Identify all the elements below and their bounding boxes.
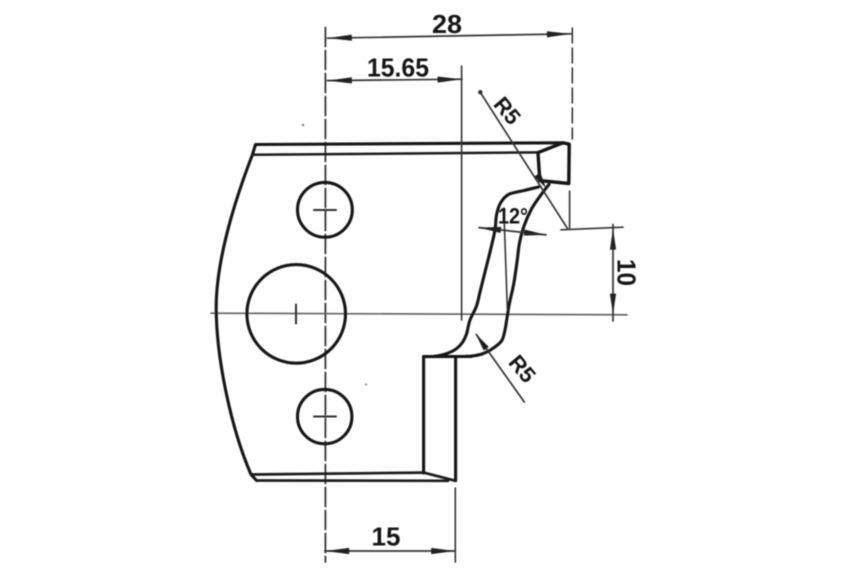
back ogee curve bbox=[434, 187, 539, 356]
hole H1 tick bbox=[314, 209, 336, 211]
step back vertical bbox=[454, 358, 457, 481]
svg-text:15: 15 bbox=[372, 522, 401, 552]
hole H2 big bbox=[247, 265, 346, 364]
dim 10 top ext line bbox=[561, 227, 623, 230]
svg-text:R5: R5 bbox=[489, 92, 526, 130]
centerline horizontal (big hole axis / bottom ext of 10) bbox=[211, 313, 627, 315]
bottom face lower line bbox=[257, 479, 449, 482]
scan speck bbox=[302, 124, 305, 127]
leader R5 lower bbox=[476, 335, 524, 403]
svg-text:10: 10 bbox=[612, 259, 642, 286]
front ogee curve bbox=[466, 185, 549, 357]
dim 28 right ext line bbox=[571, 28, 573, 139]
dim 15 line bbox=[325, 550, 456, 552]
outline left arc + top corner bbox=[216, 143, 563, 481]
angle 12 dim line bbox=[479, 228, 546, 235]
scan speck bbox=[365, 383, 367, 385]
leader R5 upper bbox=[480, 91, 568, 228]
svg-text:28: 28 bbox=[432, 11, 462, 39]
step front vertical bbox=[422, 357, 425, 473]
dim 15 right ext line bbox=[454, 488, 456, 562]
dim 10 line bbox=[612, 225, 614, 322]
bottom face top line bbox=[251, 473, 424, 475]
hole H2 tick bbox=[295, 305, 297, 324]
top face lower line bbox=[253, 152, 538, 154]
dim 15.65 right ext line bbox=[461, 66, 463, 320]
land facet top right bbox=[538, 143, 569, 184]
hole H3 tick bbox=[314, 416, 336, 418]
ext line land corner bbox=[569, 191, 571, 228]
centerline vertical (hole axis / ext line for 28,15.65,15) bbox=[324, 28, 326, 563]
hole H1 top bbox=[298, 182, 353, 237]
angle 12 ref line bbox=[504, 208, 508, 311]
svg-text:15.65: 15.65 bbox=[367, 53, 429, 83]
hole H3 bottom bbox=[298, 389, 352, 443]
dim 15.65 line bbox=[327, 79, 462, 80]
bottom right bevel bbox=[424, 473, 456, 481]
svg-text:12°: 12° bbox=[498, 204, 528, 229]
step top edge bbox=[424, 355, 471, 358]
dim 28 line bbox=[327, 34, 571, 38]
